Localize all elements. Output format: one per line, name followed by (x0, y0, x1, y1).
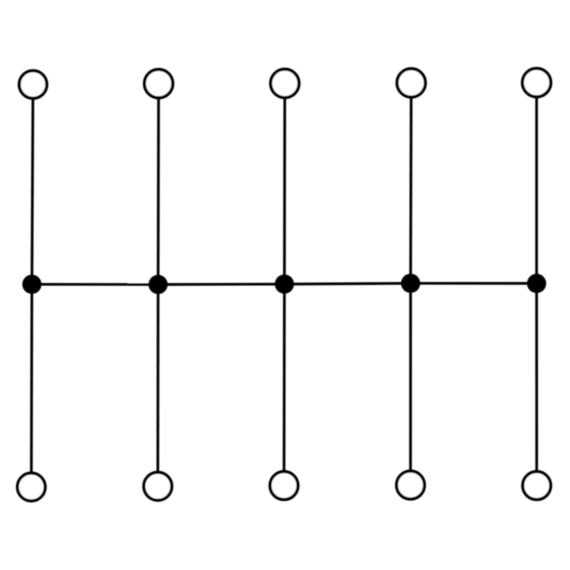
wire (156, 285, 159, 487)
wire (409, 83, 412, 283)
node bottom 3 (270, 472, 298, 500)
wire (30, 284, 33, 487)
wire (411, 282, 537, 285)
node top 4 (397, 69, 425, 97)
node mid 4 (filled) (401, 274, 420, 293)
node top 2 (144, 69, 172, 97)
node mid 3 (filled) (275, 275, 294, 294)
wire (158, 283, 284, 286)
node bottom 4 (397, 471, 425, 499)
wire (283, 83, 286, 284)
node top 3 (271, 69, 299, 97)
node top 5 (522, 68, 550, 96)
wire (157, 84, 160, 285)
wire (284, 282, 410, 286)
node bottom 5 (523, 472, 551, 500)
wire (409, 283, 412, 485)
wire (32, 85, 33, 285)
wire (32, 283, 158, 286)
node mid 5 (filled) (527, 274, 546, 293)
node bottom 1 (17, 473, 45, 501)
node mid 1 (filled) (22, 275, 41, 294)
wire (535, 283, 538, 485)
wire (535, 83, 538, 284)
node mid 2 (filled) (149, 275, 168, 294)
node bottom 2 (144, 472, 172, 500)
wire (283, 284, 286, 486)
node top 1 (19, 71, 47, 99)
